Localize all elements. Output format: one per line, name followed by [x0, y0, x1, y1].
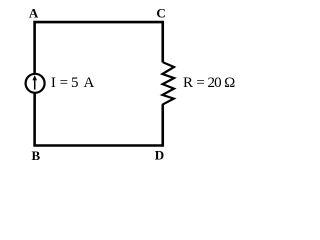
- svg-text:R = 20 Ω: R = 20 Ω: [183, 75, 235, 91]
- svg-text:C: C: [156, 6, 165, 21]
- svg-text:I = 5 A: I = 5 A: [51, 75, 95, 91]
- svg-text:B: B: [32, 148, 41, 163]
- svg-text:D: D: [155, 148, 164, 163]
- svg-text:A: A: [29, 6, 39, 21]
